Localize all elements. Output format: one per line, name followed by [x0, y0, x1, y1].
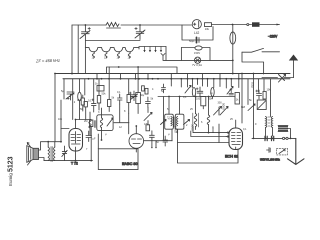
- bus B4: [158, 96, 235, 98]
- capacitor C8: [146, 97, 151, 107]
- grid arrows V4: [226, 132, 229, 138]
- capacitor C10: [257, 90, 262, 99]
- capacitor C9: [150, 131, 155, 141]
- dashed trimmer box: [277, 148, 288, 155]
- svg-text:0,5µ: 0,5µ: [251, 82, 255, 88]
- dial assembly bar: [139, 47, 166, 50]
- FM IF coils: [266, 117, 267, 128]
- svg-text:~220V: ~220V: [268, 35, 278, 39]
- dial arrows: [145, 47, 162, 52]
- oscillator coil 2: [207, 115, 210, 125]
- diode detector: [86, 131, 92, 142]
- plus label C2: [135, 27, 137, 29]
- wires between boxes: [152, 97, 164, 148]
- trimmer left: [248, 104, 255, 111]
- resistor R9: [127, 95, 130, 103]
- wire top rail left: [72, 24, 106, 26]
- svg-text:150V: 150V: [194, 51, 200, 55]
- svg-text:100: 100: [196, 98, 201, 101]
- svg-text:5000: 5000: [222, 103, 226, 110]
- svg-text:5123: 5123: [8, 156, 15, 172]
- bus B1: [107, 67, 178, 74]
- svg-text:50µ: 50µ: [140, 94, 145, 97]
- resistor R6: [81, 98, 84, 105]
- svg-text:5000: 5000: [174, 126, 178, 133]
- mixer tube V4: [229, 128, 243, 150]
- coil row scalloped wire with taps: [85, 48, 139, 52]
- resistor R2 small box on rail: [205, 23, 212, 27]
- tap coil 3: [117, 52, 119, 58]
- wire top rail to rectifier: [121, 24, 192, 26]
- AM osc coil: [194, 114, 197, 127]
- capacitor across primary: [62, 146, 67, 161]
- FM ratio coil dark: [278, 126, 288, 132]
- svg-text:EABC 80: EABC 80: [122, 162, 138, 166]
- electrolytic can: [78, 92, 82, 101]
- resistor R11: [263, 92, 266, 100]
- svg-text:10k: 10k: [205, 27, 210, 31]
- output tube V2: [69, 129, 83, 152]
- svg-text:2M: 2M: [84, 120, 87, 123]
- wire vertical second rail: [77, 25, 79, 74]
- wire lamp rail: [161, 54, 233, 61]
- wire between C1 and C2: [85, 40, 140, 42]
- IF transformer T1: [97, 115, 113, 131]
- fuse lamp: [232, 25, 234, 32]
- svg-text:5000: 5000: [191, 124, 195, 131]
- wires to mixer tube: [191, 107, 229, 143]
- resistor R5: [90, 120, 93, 127]
- svg-text:ECH 81: ECH 81: [225, 155, 238, 159]
- transformer top wires: [39, 142, 62, 161]
- svg-text:0,5: 0,5: [144, 123, 148, 126]
- svg-text:µF: µF: [93, 138, 96, 141]
- bottom wire: [44, 160, 92, 162]
- svg-text:L42: L42: [194, 31, 200, 35]
- resistor Rx1: [142, 86, 145, 91]
- bus tick wires: [97, 74, 239, 79]
- tap coil 4: [128, 52, 130, 58]
- svg-text:50µF: 50µF: [189, 40, 195, 43]
- tap coil 1: [92, 52, 94, 58]
- caps on detector wire: [265, 136, 274, 140]
- resistor R10: [146, 125, 150, 131]
- resistor R7: [97, 96, 100, 104]
- FM detector wire: [252, 137, 296, 139]
- wire anode to transformer: [61, 128, 69, 130]
- resistor R8: [108, 100, 111, 107]
- resistor row under bus3: [170, 79, 172, 86]
- output transformer: [48, 147, 49, 161]
- speaker leads: [27, 143, 31, 165]
- box2 left edge rise: [177, 129, 179, 142]
- switch S1b: [242, 48, 280, 52]
- svg-text:ZF: ZF: [167, 116, 171, 120]
- wire switch return: [242, 52, 264, 74]
- capacitor C2 electrolytic: [135, 25, 145, 40]
- wire coil row to bus: [84, 48, 86, 74]
- svg-text:T 72: T 72: [71, 162, 78, 166]
- svg-text:1M: 1M: [77, 99, 80, 102]
- wire top rail right: [212, 24, 252, 26]
- dial right link: [165, 47, 167, 61]
- wires IFT2: [169, 97, 180, 141]
- dial lamp: [195, 57, 201, 63]
- capacitor C3 under rectifier: [196, 37, 198, 42]
- svg-text:UKW 87..100 MHz: UKW 87..100 MHz: [260, 159, 281, 162]
- capacitor Cx electrolytic: [131, 91, 138, 101]
- svg-text:0,1: 0,1: [117, 91, 121, 94]
- resistor Rx2: [145, 88, 148, 94]
- speaker: [33, 148, 39, 159]
- svg-text:0,1: 0,1: [183, 96, 187, 99]
- resistor R1 mains dropper zigzag: [106, 23, 121, 29]
- svg-text:0,1: 0,1: [243, 128, 247, 131]
- barretter oval: [181, 47, 195, 49]
- resistor R4: [97, 86, 104, 92]
- right section verticals: [242, 74, 271, 139]
- svg-text:ZF = 468 kHz: ZF = 468 kHz: [35, 58, 60, 64]
- capacitor C7 electrolytic tall: [136, 93, 141, 104]
- svg-text:6k8: 6k8: [241, 106, 246, 109]
- wire into box1: [97, 134, 99, 149]
- svg-text:Eumig: Eumig: [8, 173, 13, 186]
- resistor R3: [84, 102, 87, 107]
- svg-text:0,1: 0,1: [88, 100, 92, 103]
- chassis box 2: [178, 143, 239, 164]
- bus B3: [63, 78, 290, 80]
- tap coil 2: [105, 52, 107, 58]
- svg-text:3000: 3000: [211, 126, 215, 133]
- junction dots bus3: [47, 24, 291, 162]
- dipole arrow down: [288, 138, 305, 164]
- capacitor C6: [118, 94, 123, 104]
- volume pot arrow: [144, 113, 152, 121]
- antenna arrow up: [293, 60, 295, 78]
- bus B2 HT: [55, 73, 290, 75]
- triode tube V3: [129, 134, 144, 149]
- chassis box 1: [98, 149, 138, 170]
- detector comp: [163, 136, 168, 146]
- plus label C1: [88, 27, 90, 29]
- wire tube cathode down: [75, 151, 77, 161]
- IF transformer T2: [165, 114, 174, 129]
- wire under rectifier: [182, 25, 213, 40]
- antenna coupling: [262, 77, 294, 79]
- capacitor small row: [162, 84, 166, 93]
- wires around IFT1: [90, 108, 102, 140]
- capacitor C5: [92, 79, 97, 112]
- tuning gang arrows: [214, 107, 229, 116]
- capacitor C4 electrolytic left: [66, 92, 74, 100]
- box R12: [257, 100, 266, 110]
- wire vertical from top rail to HT bus: [71, 25, 73, 74]
- wires center: [114, 104, 172, 141]
- svg-text:7V 0,3A: 7V 0,3A: [192, 63, 202, 67]
- capacitor C1 electrolytic: [80, 25, 90, 48]
- cap C11: [267, 148, 271, 153]
- value labels: [58, 40, 271, 151]
- left area verticals: [55, 74, 86, 142]
- rectifier tube U1: [192, 20, 201, 29]
- terminals: [283, 137, 285, 139]
- switch S1a mains: [247, 24, 249, 26]
